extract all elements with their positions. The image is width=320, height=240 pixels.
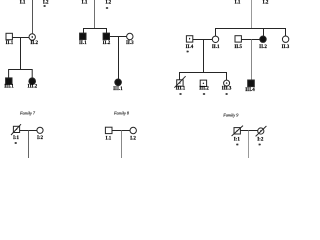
svg-text:*: * bbox=[179, 92, 182, 98]
pedigree C: wire descent from II.4 couple bbox=[203, 40, 205, 73]
pedigree C: drop wire to II.2 bbox=[263, 29, 265, 37]
pedigree A: carrier dot in II.2 bbox=[32, 36, 33, 38]
family 8: individual I.2 unaffected female circle bbox=[130, 127, 136, 133]
svg-text:Family 9: Family 9 bbox=[222, 112, 239, 117]
pedigree C: sibship wire generation II bbox=[216, 29, 286, 37]
svg-text:*: * bbox=[106, 6, 109, 12]
family 9: wire descent to offspring bbox=[248, 131, 250, 159]
pedigree B: wire descent from II.2 couple bbox=[118, 37, 120, 80]
family 7: wire descent to offspring bbox=[28, 131, 30, 159]
family 9: marriage wire I:1-I:2 bbox=[240, 130, 257, 132]
pedigree C: wire descent from generation I bbox=[251, 0, 253, 29]
pedigree A: wire descent from generation I to II.2 bbox=[32, 0, 34, 34]
pedigree C: marriage wire II.4-II.1 bbox=[193, 39, 212, 41]
pedigree C: individual III.2 carrier male square bbox=[200, 80, 206, 86]
svg-text:Family 8: Family 8 bbox=[113, 111, 130, 116]
family 8: wire descent to offspring bbox=[121, 131, 123, 159]
pedigree C: individual III.4 affected male filled square bbox=[248, 80, 255, 87]
pedigree C: individual II.5 unaffected male square bbox=[235, 36, 241, 42]
pedigree B: marriage wire II.2-II.3 bbox=[110, 36, 127, 38]
family 9: individual I:1 deceased carrier male square bbox=[234, 128, 240, 134]
pedigree C: individual II.4 carrier male square bbox=[186, 36, 192, 42]
svg-text:I.2: I.2 bbox=[130, 137, 136, 142]
svg-text:I.2: I.2 bbox=[105, 0, 111, 5]
svg-text:III.2: III.2 bbox=[28, 84, 38, 89]
svg-text:II.2: II.2 bbox=[103, 41, 111, 46]
pedigree C: carrier dot in III.3 bbox=[226, 82, 227, 83]
svg-text:II.3: II.3 bbox=[282, 45, 290, 50]
pedigree C: individual III.3 carrier female circle bbox=[224, 80, 230, 86]
family 7: individual I:1 deceased carrier male square bbox=[13, 126, 19, 132]
family 7: carrier dot in I:1 bbox=[16, 129, 17, 130]
svg-text:*: * bbox=[225, 92, 228, 98]
svg-text:*: * bbox=[236, 143, 239, 149]
pedigree B: sibship wire generation II bbox=[84, 29, 107, 34]
family 9: carrier dot in I:1 bbox=[237, 130, 238, 131]
svg-text:I.1: I.1 bbox=[82, 0, 88, 5]
family 7: marriage wire I:1-I:2 bbox=[20, 130, 37, 132]
pedigree A: individual II.1 unaffected male square bbox=[6, 33, 12, 39]
family 7: deceased slash I:1 bbox=[11, 124, 21, 135]
svg-text:III.1: III.1 bbox=[113, 87, 123, 92]
pedigree C: individual II.1 unaffected female circle bbox=[212, 36, 218, 42]
svg-text:*: * bbox=[258, 143, 261, 149]
pedigree A: wire descent from II couple bbox=[20, 38, 22, 70]
family 9: deceased slash I:2 bbox=[256, 126, 267, 136]
pedigree C: marriage wire II.5-II.2 bbox=[241, 39, 259, 41]
family 9: deceased slash I:1 bbox=[232, 126, 243, 136]
family 9: individual I:2 deceased carrier female circle bbox=[258, 128, 264, 134]
pedigree C: carrier dot in III.1 bbox=[179, 82, 180, 83]
svg-text:*: * bbox=[43, 5, 46, 11]
svg-text:III.1: III.1 bbox=[176, 86, 186, 91]
svg-text:II.1: II.1 bbox=[79, 41, 87, 46]
pedigree B: individual II.2 affected male filled square bbox=[103, 33, 109, 39]
pedigree C: carrier dot in III.2 bbox=[203, 83, 204, 84]
svg-text:*: * bbox=[14, 141, 17, 147]
svg-text:I:1: I:1 bbox=[234, 138, 241, 143]
pedigree C: individual II.3 unaffected female circle bbox=[282, 36, 288, 42]
family 8: marriage wire I.1-I.2 bbox=[112, 130, 130, 132]
svg-text:II.2: II.2 bbox=[259, 45, 267, 50]
svg-text:Family 7: Family 7 bbox=[19, 111, 36, 116]
pedigree B: individual II.1 affected male filled square bbox=[80, 33, 86, 39]
pedigree A: sibship wire generation III bbox=[9, 70, 33, 78]
svg-text:I.1: I.1 bbox=[235, 0, 241, 5]
pedigree A: marriage wire II.1-II.2 bbox=[12, 37, 29, 39]
svg-text:II.3: II.3 bbox=[126, 41, 134, 46]
pedigree A: individual III.1 affected male filled square bbox=[6, 78, 12, 85]
svg-text:I:2: I:2 bbox=[257, 138, 264, 143]
pedigree B: individual III.1 affected female filled circle bbox=[115, 79, 122, 86]
pedigree C: individual III.1 deceased carrier male square bbox=[177, 80, 183, 86]
svg-text:*: * bbox=[203, 92, 206, 98]
svg-text:III.4: III.4 bbox=[245, 88, 255, 93]
svg-text:I.1: I.1 bbox=[106, 137, 112, 142]
svg-text:II.2: II.2 bbox=[30, 41, 38, 46]
svg-text:III.1: III.1 bbox=[4, 84, 14, 89]
svg-text:II.1: II.1 bbox=[212, 45, 220, 50]
pedigree C: deceased slash III.1 bbox=[174, 76, 185, 88]
pedigree C: carrier dot in II.4 bbox=[189, 38, 190, 40]
family 8: individual I.1 unaffected male square bbox=[105, 127, 112, 133]
svg-text:II.1: II.1 bbox=[6, 41, 14, 46]
pedigree C: individual II.2 affected female filled circle bbox=[260, 36, 266, 42]
svg-text:*: * bbox=[186, 50, 189, 56]
svg-text:I.1: I.1 bbox=[20, 0, 26, 5]
pedigree B: individual II.3 unaffected female circle bbox=[127, 33, 133, 39]
pedigree C: sibship wire generation III bbox=[180, 73, 227, 81]
pedigree B: wire descent from generation I bbox=[94, 0, 96, 29]
family 9: carrier dot in I:2 bbox=[260, 130, 261, 131]
svg-text:I.2: I.2 bbox=[263, 0, 269, 5]
pedigree A: individual II.2 carrier female circle bbox=[29, 34, 35, 40]
svg-text:II.5: II.5 bbox=[234, 45, 242, 50]
svg-text:III.3: III.3 bbox=[222, 86, 232, 91]
pedigree C: wire descent from II.5 couple to III.4 bbox=[251, 40, 253, 81]
family 7: individual I:2 unaffected female circle bbox=[37, 127, 43, 133]
svg-text:I:2: I:2 bbox=[37, 136, 44, 141]
pedigree A: individual III.2 affected female filled circle bbox=[29, 78, 36, 85]
svg-text:III.2: III.2 bbox=[199, 86, 209, 91]
